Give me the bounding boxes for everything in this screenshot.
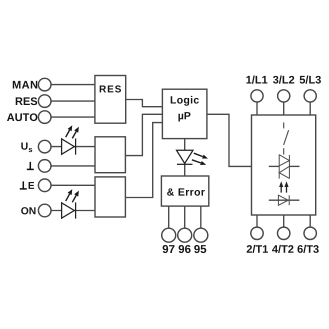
terminal RES [38,95,51,108]
label 97 [163,245,175,253]
wire E-ground to amp2 [51,184,95,186]
label uP [178,112,190,121]
LED D4 optocoupler emitter inside power block [278,195,289,205]
wire RES box to Logic [126,100,163,107]
wire Error to terminal 97 [168,206,170,228]
wire terminal 6/T3 stub [309,215,311,227]
box Logic uP microprocessor [162,89,207,138]
wire power block main path right stub [289,165,299,167]
label ON [21,207,35,214]
LED D1 on Us line [62,139,76,155]
LED D2 on ON line [62,202,76,218]
label Us [21,142,32,152]
label 4/T2 [272,245,293,253]
wire MAN to RES box [51,84,95,86]
terminal AUTO [38,111,51,124]
label 3/L2 [273,76,294,84]
label 95 [194,245,206,253]
triac V1 inside power block [279,154,289,178]
label RES terminal [16,97,37,105]
wire amp1 to Logic [125,114,162,155]
terminal Us supply [38,140,51,153]
terminal 2/T1 [251,227,263,239]
label AUTO [7,113,37,121]
label E [29,182,35,189]
terminal 97 [162,228,176,242]
terminal ground [27,162,34,170]
wire Us to amp1 [51,146,95,148]
terminal ON [38,204,51,217]
LED D3 error indicator below Logic [177,150,194,164]
box power block [252,115,316,215]
label MAN [13,81,37,89]
label Logic [171,96,199,106]
label 5/L3 [300,76,321,84]
wire RES to RES box [51,100,95,102]
wire terminal 5/L3 stub [309,102,311,115]
terminal 3/L2 [278,90,290,102]
wire Logic to power block [207,114,252,166]
optocoupler light arrows [279,181,289,192]
switch S1 inside power block [284,122,289,154]
wire amp2 to Logic [125,123,162,198]
wire power block LED path [269,199,300,201]
wire terminal 2/T1 stub [256,215,258,227]
wire Logic to Error via LED [184,139,186,176]
wire terminal 4/T2 stub [283,215,285,227]
box AND-Error [161,176,208,206]
terminal ground E [38,160,51,173]
label 96 [179,245,191,253]
wire Error to terminal 96 [184,206,186,228]
terminal 5/L3 [304,90,316,102]
box amplifier 2 [95,177,125,217]
wire terminal 1/L1 stub [256,102,258,115]
label RES box [100,85,121,92]
terminal 4/T2 [278,227,290,239]
label 2/T1 [247,245,268,253]
label & Error [167,188,205,195]
label 1/L1 [246,76,267,84]
wire ground1 to amp1 [51,165,95,167]
wire Error to terminal 95 [200,206,202,228]
label 6/T3 [298,245,319,253]
terminal 6/T3 [304,227,316,239]
box RES [95,76,126,124]
terminal 1/L1 [251,90,263,102]
terminal 96 [178,228,192,242]
wire power block main path left stub [269,165,279,167]
box amplifier 1 [95,137,125,173]
terminal MAN [38,78,51,91]
wire ON to amp2 [51,210,95,212]
wire terminal 3/L2 stub [283,102,285,115]
wire AUTO to RES box [51,116,95,118]
terminal 95 [194,228,208,242]
